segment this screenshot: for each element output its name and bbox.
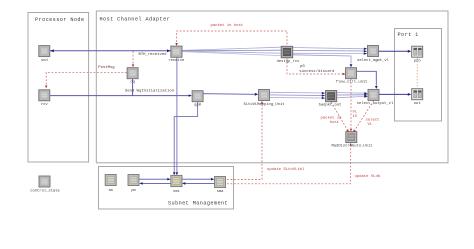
svg-text:packet in host: packet in host <box>211 23 244 28</box>
wire select_output_vl-out <box>379 93 411 96</box>
svg-text:VL: VL <box>368 123 373 127</box>
svg-text:SLtoVLMapping_Unit: SLtoVLMapping_Unit <box>243 102 284 107</box>
svg-text:smi: smi <box>173 189 181 194</box>
wire qp0-SLtoVLMapping <box>203 93 258 96</box>
node select_mgmt_vl <box>357 46 390 64</box>
node cq <box>127 68 138 85</box>
svg-text:BTH_received: BTH_received <box>139 52 167 57</box>
event packet in host dashed badpkt-MadMux <box>320 102 348 132</box>
node select_output_vl <box>357 89 394 106</box>
svg-text:VL: VL <box>353 111 358 115</box>
node badpkt_out <box>319 91 342 108</box>
event BTH_received dashed <box>132 51 167 67</box>
node pm <box>128 175 139 193</box>
svg-text:15: 15 <box>353 115 358 119</box>
wire select_mgmt_vl-pcb <box>379 50 411 53</box>
event select VL dashed select_output-MadMux <box>353 101 379 133</box>
svg-text:sm: sm <box>108 189 113 193</box>
node qp0 <box>192 91 203 108</box>
node control_state <box>30 176 60 193</box>
svg-text:badpkt_out: badpkt_out <box>319 102 342 107</box>
node SLtoVLMapping_Unit <box>243 90 284 107</box>
svg-text:update VLdb: update VLdb <box>355 174 381 179</box>
event update VLdb dashed sma-MadMux <box>227 143 381 184</box>
svg-text:select_mgmt_vl: select_mgmt_vl <box>357 58 390 63</box>
node pcb <box>412 46 423 63</box>
node smi <box>171 175 182 193</box>
svg-text:PostMsg: PostMsg <box>98 66 114 70</box>
wire fan receive-destqp <box>182 47 281 55</box>
svg-text:qp0: qp0 <box>194 104 202 108</box>
svg-text:Port 1: Port 1 <box>398 32 419 38</box>
svg-text:packet in: packet in <box>320 115 341 120</box>
svg-text:flow_ctrl_unit: flow_ctrl_unit <box>336 80 368 85</box>
svg-text:receive: receive <box>168 58 185 63</box>
svg-text:select: select <box>366 117 380 122</box>
wire sma-smi <box>182 182 214 185</box>
node receive <box>168 46 185 63</box>
svg-text:MadDistributn_Unit: MadDistributn_Unit <box>331 144 372 149</box>
box Subnet Management <box>99 167 234 210</box>
svg-text:Processor Node: Processor Node <box>35 17 84 23</box>
svg-text:success/discard: success/discard <box>299 69 334 74</box>
box Processor Node <box>28 13 89 163</box>
box Port 1 <box>395 29 442 122</box>
link pcb-out dashed <box>416 58 418 88</box>
wire fan badpkt-select_output_vl <box>337 92 368 98</box>
svg-text:host: host <box>330 120 339 125</box>
node destqp_rcv <box>277 46 301 64</box>
box Host Channel Adapter <box>96 11 448 163</box>
wire pm-smi <box>139 178 170 181</box>
event update SLtoVLtbl dashed sma-SLtoVL <box>227 101 305 180</box>
svg-text:update SLtoVLtbl: update SLtoVLtbl <box>267 167 305 172</box>
svg-text:sma: sma <box>217 190 225 194</box>
label Send WqInitialization <box>125 89 174 94</box>
svg-text:destqp_rcv: destqp_rcv <box>277 59 301 64</box>
wire cq drop to rcv-qp0 wire <box>132 79 134 96</box>
event success/discard dashed destqp-flow_ctrl <box>287 59 346 76</box>
wire smi-pm <box>139 182 170 185</box>
svg-text:cq: cq <box>130 81 135 85</box>
svg-text:pm: pm <box>131 189 136 193</box>
wire smi-sma <box>182 178 214 181</box>
svg-text:rcv: rcv <box>41 102 49 107</box>
event packet in host top dashed <box>175 23 287 46</box>
wire fan SLtoVL-badpkt <box>270 92 325 99</box>
svg-text:out: out <box>414 102 421 106</box>
svg-text:snd: snd <box>41 58 48 63</box>
svg-text:Subnet Management: Subnet Management <box>168 201 228 207</box>
node MadDistribution_Unit <box>331 132 372 149</box>
wire snd-receive <box>50 49 170 52</box>
svg-text:Host Channel Adapter: Host Channel Adapter <box>100 17 171 23</box>
node sma <box>215 177 226 194</box>
event VL15 dashed flow_ctrl-MadMux <box>350 79 358 132</box>
node snd <box>39 46 50 63</box>
wire flow_ctrl-select_output_vl <box>357 71 378 89</box>
wire fan destqp-select_mgmt_vl <box>293 48 367 55</box>
svg-text:p0: p0 <box>300 65 305 69</box>
node flow_ctrl_unit <box>336 68 368 85</box>
wire receive down to smi <box>176 58 179 176</box>
node sm <box>105 175 116 193</box>
wire qp0 down to smi <box>173 102 198 175</box>
svg-text:pcb: pcb <box>414 58 422 63</box>
wire branch to flow_ctrl <box>293 55 352 67</box>
node rcv <box>39 90 50 107</box>
event PostMsg dashed <box>45 66 127 88</box>
svg-text:Send WqInitialization: Send WqInitialization <box>125 89 174 94</box>
node out <box>412 89 423 106</box>
wire rcv-qp0 <box>50 94 192 96</box>
svg-text:select_output_vl: select_output_vl <box>357 101 394 106</box>
svg-text:control_state: control_state <box>30 188 60 193</box>
